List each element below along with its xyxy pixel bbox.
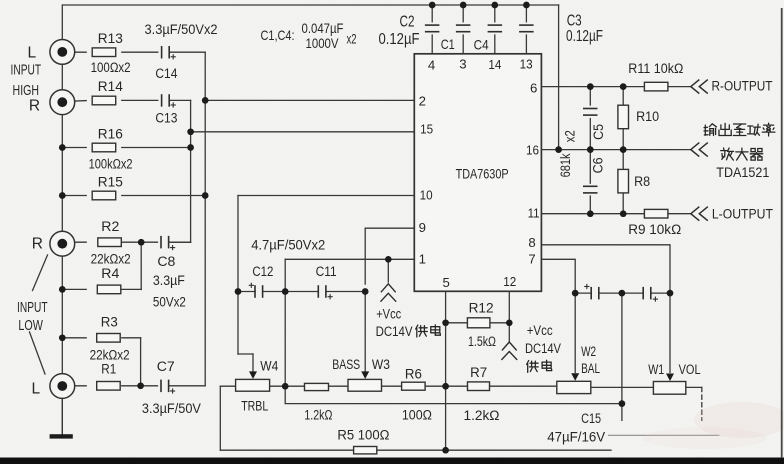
svg-text:C5: C5	[591, 124, 606, 140]
wire capR row c	[651, 292, 670, 294]
node pin1 Vcc	[385, 256, 392, 263]
svg-text:1.5kΩ: 1.5kΩ	[468, 334, 496, 350]
svg-text:+Vcc: +Vcc	[527, 323, 553, 339]
resistor R1	[97, 382, 121, 391]
label CJK shuchuzhigonglv1	[719, 123, 731, 135]
svg-text:+Vcc: +Vcc	[376, 306, 401, 322]
output connector L-OUTPUT arrow	[691, 207, 708, 221]
svg-text:R4: R4	[101, 266, 119, 282]
label CJK fangdaqi1	[736, 148, 748, 160]
node capL mid	[282, 288, 289, 295]
RCA jack L high	[50, 40, 75, 65]
svg-text:7: 7	[528, 252, 535, 267]
resistor R6	[402, 382, 426, 390]
svg-text:R8: R8	[634, 174, 650, 190]
label CJK gongdian-p12b	[542, 360, 552, 370]
capacitor C2	[425, 25, 440, 32]
wire R15 to node	[122, 195, 205, 197]
wire R11 to arrow	[668, 86, 691, 88]
wire W4 wiper stem	[252, 354, 254, 373]
wire R12 row right	[490, 322, 509, 324]
wire W1 right drop	[701, 387, 703, 420]
frame right border	[781, 8, 783, 458]
resistor R13	[92, 48, 116, 57]
ground	[50, 434, 73, 438]
wire W1 wiper stem	[669, 293, 671, 372]
wire pin5 vertical	[445, 291, 447, 450]
svg-text:W4: W4	[260, 358, 278, 374]
wire R14 to C13	[122, 99, 158, 101]
svg-text:R6: R6	[405, 366, 422, 382]
label CJK fangdaqi0	[721, 148, 734, 160]
wire W2 to W1	[591, 386, 654, 388]
wire left input bus	[61, 5, 63, 434]
wire C2 top stub	[431, 5, 433, 22]
wire bottom rail	[220, 449, 611, 451]
svg-text:1000V: 1000V	[306, 36, 340, 51]
wire R1k2 to W3	[329, 385, 349, 387]
wire pin10 wire	[238, 195, 414, 197]
wire W4 left drop	[219, 386, 221, 450]
wire C13 to corner	[169, 99, 190, 101]
wire W2 wiper stem	[574, 293, 576, 372]
wire C5 col b	[589, 119, 591, 150]
svg-text:9: 9	[419, 220, 426, 235]
capacitor C4	[488, 25, 503, 32]
svg-text:LOW: LOW	[18, 318, 43, 334]
wire R4 to corner	[122, 288, 141, 290]
node capR right	[667, 290, 674, 297]
wire R12 row left	[446, 322, 468, 324]
node capL C12	[235, 288, 242, 295]
node R12 left	[442, 319, 449, 326]
label CJK shuchuzhigonglv0	[704, 124, 716, 136]
svg-text:R14: R14	[98, 79, 123, 95]
wire R4 corner up	[140, 242, 142, 289]
node pin6 R10	[620, 83, 627, 90]
svg-text:W2: W2	[581, 344, 596, 360]
resistor R11	[644, 82, 668, 91]
svg-text:4.7µF/50Vx2: 4.7µF/50Vx2	[251, 238, 325, 254]
node R3 bus	[59, 334, 66, 341]
wire capR row a	[575, 292, 591, 294]
svg-text:1: 1	[419, 252, 426, 267]
wire R16 to vertical	[122, 147, 191, 149]
wire C6 col a	[589, 150, 591, 184]
svg-text:100Ω: 100Ω	[402, 407, 432, 423]
node C13-pin15	[187, 128, 194, 135]
wire pin6 row	[541, 86, 644, 88]
label CJK shuchuzhigonglv4	[762, 123, 775, 136]
RCA jack pin R high	[57, 97, 67, 107]
label CJK shuchuzhigonglv3	[748, 124, 761, 135]
svg-text:0.12µF: 0.12µF	[566, 28, 603, 45]
wire R10 col b	[622, 129, 624, 150]
svg-text:C2: C2	[400, 13, 415, 30]
svg-text:R: R	[29, 98, 40, 115]
svg-text:47µF/16V: 47µF/16V	[547, 430, 605, 446]
wire R2 to C8	[122, 241, 158, 243]
node R16 tap	[187, 144, 194, 151]
svg-text:L: L	[27, 44, 36, 61]
wire C4 bottom stub	[494, 35, 496, 54]
svg-text:6: 6	[530, 80, 537, 95]
svg-text:3: 3	[459, 56, 466, 71]
wire C2 bottom stub	[431, 35, 433, 54]
svg-text:DC14V: DC14V	[525, 341, 561, 357]
node C15 node	[619, 400, 626, 407]
capacitor C14	[162, 46, 170, 59]
wire mid riser pin2-pin10	[204, 100, 206, 195]
resistor R15	[92, 191, 116, 200]
node W4 right	[282, 383, 289, 390]
wire C1 top stub	[462, 5, 464, 22]
wire pin15 wire	[191, 131, 415, 133]
svg-text:11: 11	[528, 206, 540, 221]
capacitor C12	[255, 285, 263, 298]
potentiometer W1 VOL	[653, 382, 685, 395]
svg-text:W3: W3	[372, 357, 390, 373]
label CJK gongdian-p1b	[431, 325, 441, 335]
wire node to C7	[141, 385, 158, 387]
wire pointer L-low	[30, 332, 46, 374]
capacitor C1	[456, 25, 471, 32]
wire capR row b	[599, 292, 643, 294]
node R3-R1	[137, 382, 144, 389]
wire pointer R-low	[33, 255, 48, 291]
svg-text:C15: C15	[581, 411, 601, 427]
label CJK shuchuzhigonglv2	[733, 124, 746, 136]
potentiometer W4 TRBL	[236, 379, 270, 391]
wire L-low to R1	[62, 385, 86, 387]
capacitor C5	[583, 109, 598, 116]
svg-text:TRBL: TRBL	[241, 399, 268, 415]
wire R7 to W2	[489, 385, 556, 387]
svg-text:C1: C1	[441, 37, 455, 52]
wire R13 to C14	[122, 51, 158, 53]
svg-text:R7: R7	[470, 365, 487, 381]
svg-text:C14: C14	[155, 66, 177, 82]
svg-text:1.2kΩ: 1.2kΩ	[304, 407, 332, 423]
wire C8 elbow	[172, 241, 191, 243]
svg-text:TDA7630P: TDA7630P	[456, 166, 509, 181]
svg-text:13: 13	[520, 56, 533, 71]
capacitor C6	[583, 186, 598, 193]
svg-text:16: 16	[526, 143, 539, 158]
svg-text:BASS: BASS	[332, 357, 360, 373]
resistor R12	[467, 318, 490, 328]
resistor R7	[468, 382, 490, 391]
wire R3 row	[62, 337, 86, 339]
capacitor C13	[162, 94, 170, 107]
wire C7 riser	[204, 196, 206, 386]
resistor R16	[92, 143, 116, 152]
svg-text:INPUT: INPUT	[11, 63, 42, 79]
wire capL row b	[263, 291, 319, 293]
svg-text:R9 10kΩ: R9 10kΩ	[628, 222, 681, 238]
wire C14 corner drop	[204, 52, 206, 100]
svg-text:2: 2	[419, 93, 426, 108]
svg-text:INPUT: INPUT	[17, 300, 48, 316]
node R2-C8	[138, 239, 145, 246]
node top rail C1	[460, 2, 467, 9]
wire R8 col a	[622, 150, 624, 170]
svg-text:C6: C6	[591, 157, 606, 173]
svg-text:R-OUTPUT: R-OUTPUT	[712, 78, 773, 94]
svg-text:15: 15	[420, 121, 433, 136]
wire R-low to R2	[62, 241, 86, 243]
node pin10 tap	[202, 192, 209, 199]
resistor R-1.2k	[305, 383, 329, 390]
svg-text:C11: C11	[316, 264, 337, 280]
wire pin9 elbow	[365, 228, 414, 284]
wire R15 row to pin10	[62, 195, 86, 197]
svg-text:14: 14	[488, 57, 501, 72]
RCA jack R high	[50, 90, 75, 115]
output connector to-amp arrow	[691, 143, 708, 157]
label CJK gongdian-p12a	[527, 361, 539, 373]
power symbol Vcc pin12	[502, 342, 517, 360]
svg-text:8: 8	[528, 235, 535, 250]
node R15 bus	[59, 192, 66, 199]
wire pin10 drop to C12	[237, 196, 239, 292]
RCA jack R low	[50, 231, 75, 256]
wire C1 bottom stub	[462, 35, 464, 54]
svg-text:R3: R3	[101, 315, 118, 331]
svg-text:4: 4	[428, 57, 435, 72]
svg-text:R5 100Ω: R5 100Ω	[337, 428, 389, 444]
capacitor C3	[519, 25, 534, 32]
wire Vcc stub pin1	[387, 259, 389, 282]
svg-text:3.3µF/50Vx2: 3.3µF/50Vx2	[145, 22, 218, 38]
node capL C11	[362, 288, 369, 295]
resistor R4	[97, 285, 121, 294]
svg-text:R2: R2	[101, 219, 119, 235]
RCA jack pin R low	[57, 239, 67, 249]
resistor R14	[92, 96, 116, 105]
svg-text:0.047µF: 0.047µF	[302, 21, 344, 36]
wire W3 to R6	[382, 385, 402, 387]
node pin16 R10	[620, 146, 627, 153]
frame bottom black bar	[0, 458, 784, 464]
svg-text:C13: C13	[155, 111, 177, 127]
node bass row pin5	[442, 383, 449, 390]
svg-text:C3: C3	[567, 13, 582, 30]
wire top rail	[63, 4, 559, 6]
svg-text:100Ωx2: 100Ωx2	[91, 60, 131, 76]
svg-text:3.3µF/50V: 3.3µF/50V	[142, 401, 201, 417]
output connector R-OUTPUT arrow	[691, 80, 708, 94]
wire C5 col a	[589, 87, 591, 105]
wire C8 right stub	[169, 241, 191, 243]
svg-text:100kΩx2: 100kΩx2	[89, 157, 133, 173]
svg-text:x2: x2	[347, 31, 357, 46]
node pin16 rail	[555, 146, 562, 153]
svg-text:C4: C4	[474, 38, 489, 53]
node pin16 C5	[587, 146, 594, 153]
wire C7 right stub	[169, 385, 205, 387]
potentiometer W2 BAL	[557, 381, 591, 393]
svg-text:TDA1521: TDA1521	[716, 165, 769, 181]
svg-text:681k: 681k	[558, 153, 573, 177]
svg-text:R12: R12	[469, 301, 494, 317]
svg-text:50Vx2: 50Vx2	[153, 294, 186, 310]
wire R6 to R7	[425, 385, 467, 387]
wire pin12 vertical	[508, 291, 510, 323]
capacitor C15 plate line	[609, 434, 720, 436]
node capR left	[572, 290, 579, 297]
resistor R5	[354, 447, 377, 454]
node top rail C2	[429, 2, 436, 9]
svg-text:BAL: BAL	[581, 361, 600, 377]
wire W3 wiper stem	[364, 292, 366, 373]
svg-text:C7: C7	[157, 359, 175, 375]
svg-text:3.3µF: 3.3µF	[153, 273, 185, 289]
wire C14 to corner	[169, 51, 205, 53]
wire L-high to R13	[62, 51, 86, 53]
wire pin16 row	[541, 149, 690, 151]
svg-text:C12: C12	[252, 264, 273, 280]
label CJK fangdaqi2	[750, 149, 763, 161]
wire pin1 wire	[285, 258, 414, 260]
svg-text:R15: R15	[98, 175, 123, 191]
RCA jack pin L high	[57, 47, 67, 57]
wire pin7 elbow	[541, 259, 575, 293]
wire R9 to arrow	[668, 213, 691, 215]
op-amp U1 TDA7630P IC body	[414, 54, 541, 291]
wire ground stem	[61, 398, 63, 434]
capacitor C7	[161, 380, 169, 393]
wire pin2 wire	[205, 99, 414, 101]
wire pin11 row	[541, 213, 644, 215]
potentiometer W3 BASS	[348, 379, 382, 391]
svg-text:R11 10kΩ: R11 10kΩ	[628, 61, 683, 77]
svg-text:R10: R10	[636, 109, 659, 125]
svg-text:R13: R13	[98, 31, 123, 47]
wire R10 col a	[622, 87, 624, 106]
resistor R10	[618, 105, 629, 129]
wire top rail right drop	[558, 5, 560, 150]
svg-text:DC14V: DC14V	[376, 324, 413, 340]
svg-text:10: 10	[420, 188, 433, 203]
wire C13 corner drop	[190, 100, 192, 147]
wire W4 left	[220, 385, 235, 387]
wire C6 col b	[589, 196, 591, 214]
wire R4 row	[62, 288, 86, 290]
wire R16 row	[62, 147, 86, 149]
svg-text:R1: R1	[101, 361, 116, 377]
svg-text:L-OUTPUT: L-OUTPUT	[712, 207, 773, 223]
wire R3 to corner	[122, 337, 141, 339]
wire R16 vertical to C8	[190, 148, 192, 243]
node R4 bus	[59, 286, 66, 293]
wire W4 wiper elbow	[238, 353, 253, 355]
wire C4 top stub	[494, 5, 496, 22]
svg-text:C8: C8	[157, 254, 175, 270]
node bottom rail pin5	[442, 447, 449, 454]
resistor R2	[98, 238, 122, 247]
wire pin1 drop	[284, 259, 286, 291]
wire capL row a	[238, 291, 255, 293]
svg-text:R16: R16	[98, 127, 123, 143]
wire capL row c	[326, 291, 365, 293]
svg-text:C1,C4:: C1,C4:	[261, 28, 295, 43]
wire R8 col b	[622, 193, 624, 214]
capacitor C8	[161, 236, 169, 249]
capacitor C10	[643, 287, 651, 300]
svg-text:12: 12	[503, 274, 516, 289]
node pin6 C5	[587, 83, 594, 90]
wire pin1 vert capL to W4	[284, 292, 286, 387]
resistor R8	[618, 169, 629, 193]
node R16 bus	[59, 144, 66, 151]
wire C3 top stub	[525, 5, 527, 22]
node R12 right	[506, 320, 513, 327]
wire pin8 elbow	[541, 245, 670, 293]
resistor R3	[97, 334, 121, 343]
svg-text:1.2kΩ: 1.2kΩ	[464, 408, 500, 424]
svg-text:x2: x2	[563, 130, 578, 142]
wire W1 right	[686, 386, 702, 388]
node capR mid	[619, 290, 626, 297]
node pin11 R8	[620, 210, 627, 217]
wire pin1 long wire	[285, 386, 622, 403]
wire R3 corner down	[140, 338, 142, 386]
wire C3 bottom stub	[525, 35, 527, 54]
node top rail C3	[523, 2, 530, 9]
wire Vcc stub pin12	[508, 323, 510, 341]
wire R1 to C7	[122, 385, 141, 387]
power symbol Vcc pin1	[381, 284, 396, 302]
resistor R9	[644, 209, 668, 218]
RCA jack pin L low	[57, 381, 67, 391]
RCA jack L low	[50, 374, 75, 399]
svg-text:W1: W1	[648, 362, 664, 378]
svg-text:0.12µF: 0.12µF	[379, 31, 420, 48]
wire R-high to R14	[62, 101, 86, 102]
capacitor C9	[591, 287, 599, 300]
svg-text:R: R	[32, 235, 43, 252]
svg-text:L: L	[31, 381, 40, 398]
capacitor C11	[318, 285, 326, 298]
node pin11 C6	[587, 210, 594, 217]
svg-text:5: 5	[443, 275, 450, 290]
svg-text:VOL: VOL	[679, 362, 701, 378]
wire mid vertical to C15	[621, 293, 623, 420]
node C14-pin2	[202, 97, 209, 104]
label CJK gongdian-p1a	[416, 325, 428, 337]
node top rail C4	[491, 2, 498, 9]
wire C12 drop to W4 elbow	[237, 292, 239, 355]
wire W4 to R1k2	[270, 385, 305, 387]
